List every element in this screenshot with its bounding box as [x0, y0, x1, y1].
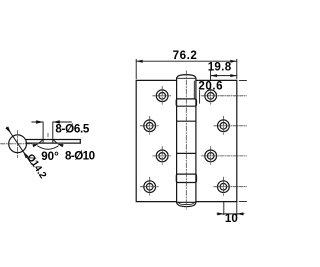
- dimension 76.2 extension line right: [236, 59, 238, 79]
- dimension 19.8 arrowhead right: [230, 74, 237, 77]
- hole B2 crosshair with centerline extended right: [214, 116, 247, 135]
- hole A3 inner: [159, 153, 166, 160]
- dimension text Ø14.2: [24, 152, 48, 181]
- hole A4 inner: [146, 183, 153, 190]
- hole B1 inner: [207, 93, 214, 100]
- dimension 76.2 line: [136, 60, 237, 62]
- leaf plate cross-section top line: [26, 139, 80, 141]
- countersink cone right side: [53, 140, 57, 144]
- dimension 19.8 arrowhead left: [211, 74, 218, 77]
- hole A2 outer: [144, 120, 156, 132]
- dimension 10 arrowhead left: [217, 212, 224, 215]
- svg-text:90°: 90°: [41, 150, 59, 163]
- svg-text:76.2: 76.2: [173, 49, 198, 62]
- hole A2 crosshair: [140, 116, 159, 135]
- hole A4 crosshair: [140, 177, 159, 196]
- hole A3 crosshair: [153, 146, 172, 165]
- left detail view: barrel circle: [9, 135, 27, 153]
- dimension 19.8 line: [211, 75, 237, 77]
- knuckle joint line upper middle: [177, 120, 196, 122]
- hole B1 outer: [205, 90, 217, 102]
- hole vertical centerline: [47, 133, 49, 138]
- dimension 10 extension line right: [236, 202, 238, 215]
- dimension 8-Ø6.5 line left with arrowhead: [32, 121, 43, 123]
- countersink cone left side: [39, 140, 43, 144]
- hole B4 inner: [220, 183, 227, 190]
- hole B4 crosshair with centerline extended right: [214, 177, 247, 196]
- 90 degree arc arrowhead right: [57, 144, 63, 147]
- dimension 10 line: [217, 213, 244, 215]
- barrel top cap dome: [177, 75, 196, 79]
- svg-text:20.6: 20.6: [198, 80, 223, 93]
- hole B3 crosshair with centerline extended right: [201, 146, 246, 165]
- barrel vertical centerline: [185, 71, 187, 210]
- hole B3 outer: [205, 150, 217, 162]
- dimension text 19.8: [208, 61, 232, 74]
- dimension 10 extension line left: [223, 202, 225, 214]
- countersunk hole wall right / extension line: [52, 122, 54, 143]
- hole A1 crosshair: [153, 86, 172, 105]
- dimension 8-Ø6.5 line right with arrowhead and tail: [53, 121, 72, 123]
- hole B3 inner: [207, 153, 214, 160]
- dimension Ø14.2 arrowhead upper: [5, 126, 11, 133]
- bottom edge extension line to right: [239, 201, 246, 203]
- dimension 19.8 extension line: [210, 71, 212, 81]
- leaf plate cross-section bottom line: [26, 140, 80, 144]
- dimension text 8-Ø6.5: [55, 123, 89, 136]
- hole A4 outer: [144, 181, 156, 193]
- dimension Ø14.2 leader line through circle: [7, 127, 32, 164]
- countersunk hole wall left / extension line: [42, 122, 44, 143]
- barrel bottom cap dome: [177, 202, 196, 206]
- dimension text 20.6: [198, 80, 223, 93]
- hole A1 outer: [156, 90, 168, 102]
- svg-text:8-Ø6.5: 8-Ø6.5: [55, 123, 89, 136]
- top edge extension line to right: [239, 79, 246, 81]
- dimension text 76.2: [173, 49, 198, 62]
- hole A1 inner: [159, 93, 166, 100]
- dimension Ø14.2 arrowhead lower: [23, 151, 29, 158]
- left detail view: horizontal centerline of circle: [1, 143, 32, 145]
- hole B2 outer: [218, 120, 230, 132]
- hole A3 outer: [156, 150, 168, 162]
- hole B4 outer: [218, 181, 230, 193]
- knuckle bearing band lower: [176, 174, 196, 182]
- knuckle bearing band upper: [176, 99, 196, 106]
- hole B1 crosshair with centerline extended right: [201, 86, 246, 105]
- dimension 76.2 extension line left: [135, 59, 137, 79]
- hole A2 inner: [146, 123, 153, 130]
- knuckle joint line lower middle: [177, 152, 196, 154]
- dimension 20.6 extension line: [199, 91, 201, 104]
- barrel left side line: [176, 78, 178, 202]
- dimension text 10: [225, 212, 238, 225]
- left detail view: vertical centerline of circle: [16, 131, 18, 158]
- hole B2 inner: [220, 123, 227, 130]
- hinge leaf outline (front view): [136, 80, 237, 201]
- barrel right side line: [195, 78, 197, 202]
- dimension 76.2 arrowhead left: [136, 60, 143, 63]
- svg-text:19.8: 19.8: [208, 61, 232, 74]
- svg-text:10: 10: [225, 212, 238, 225]
- dimension 10 arrowhead right: [237, 212, 244, 215]
- leaf rolled edge line behind barrel: [193, 81, 195, 99]
- 90 degree arc arrowhead left: [32, 144, 38, 147]
- dimension text 90 degrees: [41, 150, 59, 163]
- svg-text:8-Ø10: 8-Ø10: [65, 149, 95, 162]
- dimension 76.2 arrowhead right: [230, 60, 237, 63]
- dimension text 8-Ø10: [65, 149, 95, 162]
- 90 degree angle arc: [38, 146, 59, 149]
